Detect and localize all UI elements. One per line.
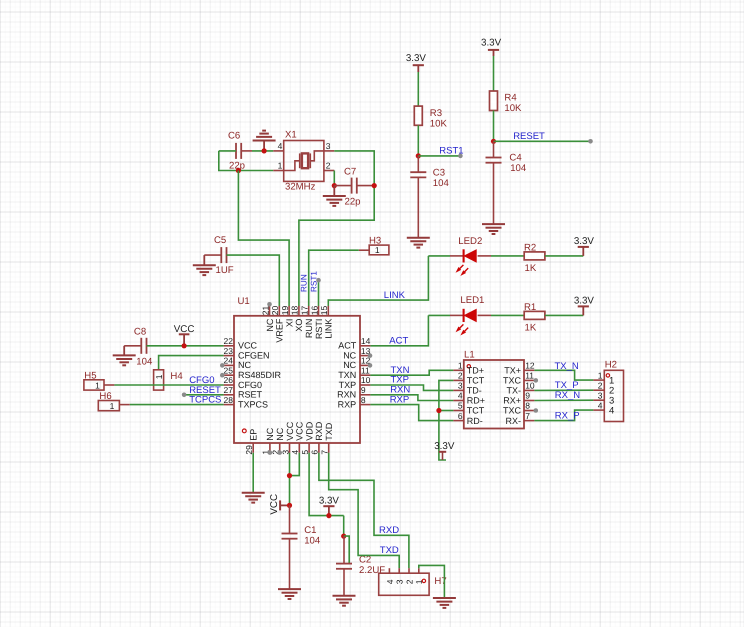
U1 pin 4 VCC (bottom)	[298, 443, 300, 453]
svg-text:C3: C3	[433, 167, 445, 178]
svg-text:TX-: TX-	[507, 386, 522, 396]
U1 pin 9 RXN (right)	[360, 394, 370, 396]
wire LINK to LED2 cathode	[428, 255, 450, 257]
H2 pin1 indicator circle	[606, 374, 609, 377]
svg-text:8: 8	[525, 401, 530, 411]
svg-text:RST1: RST1	[439, 145, 463, 156]
svg-text:9: 9	[525, 391, 530, 401]
svg-text:NC: NC	[265, 318, 275, 331]
X1 pin 2 lead	[324, 170, 334, 172]
U1 pin 14 ACT (right)	[360, 345, 370, 347]
wire RSTI stub	[318, 280, 320, 306]
svg-text:TXPCS: TXPCS	[238, 399, 268, 409]
svg-text:CFG0: CFG0	[238, 380, 262, 390]
wire 3.3V to R3	[417, 72, 419, 106]
svg-text:28: 28	[224, 395, 234, 405]
svg-text:3: 3	[598, 391, 603, 401]
wire C8 to U1 VCC pin 22	[147, 345, 224, 347]
wire jog to C2 plate	[344, 536, 350, 564]
svg-text:TD+: TD+	[467, 366, 484, 376]
svg-text:C4: C4	[509, 152, 522, 163]
junction C6 leg / crystal pin1 / XI net	[236, 168, 241, 173]
wire R4 to RESET node	[493, 111, 495, 142]
wire H5 to U1 CFG0 pin 26	[114, 384, 223, 386]
H2 pin 3	[593, 399, 604, 401]
wire U1 TXP pin10 to L1 pin3	[370, 385, 453, 390]
svg-text:VCC: VCC	[295, 421, 305, 441]
U1 pin 1 NC (bottom)	[269, 443, 271, 453]
svg-text:VDD: VDD	[304, 421, 314, 441]
svg-text:12: 12	[525, 361, 535, 371]
svg-text:104: 104	[510, 163, 527, 174]
ground left of C8	[123, 346, 125, 356]
svg-text:24: 24	[224, 356, 234, 366]
ground below crystal pin2	[333, 186, 335, 196]
wire RST stub right	[418, 155, 460, 157]
U1 pin 23 CFGEN (left)	[224, 355, 234, 357]
H2 pin 4	[593, 409, 604, 411]
no-connect dot pin 21	[267, 302, 272, 307]
svg-text:2: 2	[404, 579, 414, 584]
svg-text:C1: C1	[304, 525, 316, 536]
svg-text:20: 20	[270, 305, 280, 315]
H7 pin 4 lead	[388, 568, 390, 573]
svg-text:2: 2	[458, 371, 463, 381]
svg-text:3.3V: 3.3V	[434, 441, 455, 452]
svg-text:3.3V: 3.3V	[319, 495, 340, 506]
power 3.3V at R1	[582, 306, 584, 315]
svg-text:2.2UF: 2.2UF	[359, 565, 385, 576]
U1 pin 16 RSTI (top)	[318, 306, 320, 316]
wire C6 right to crystal pin4	[252, 150, 273, 152]
svg-text:4: 4	[458, 391, 463, 401]
svg-text:RX-: RX-	[506, 416, 522, 426]
U1 pin 29 EP (bottom)	[252, 443, 254, 453]
ground left of C5	[203, 255, 205, 265]
U1 pin 12 NC (right)	[360, 364, 370, 366]
U1 pin 19 XI (top)	[288, 306, 290, 316]
svg-text:RXP: RXP	[338, 399, 357, 409]
wire X1 pin2 down to C7	[333, 171, 335, 186]
H2 pin 2	[593, 389, 604, 391]
power 3.3V at L1 center taps	[439, 451, 446, 453]
svg-text:TCT: TCT	[467, 406, 485, 416]
svg-text:NC: NC	[343, 350, 356, 360]
svg-text:RESET: RESET	[513, 131, 545, 142]
svg-text:TCT: TCT	[467, 376, 485, 386]
wire RESET stub to U1 RSET pin 27	[184, 394, 224, 396]
ground below C1	[278, 589, 301, 599]
svg-text:VCC: VCC	[238, 341, 258, 351]
svg-text:5: 5	[458, 401, 463, 411]
svg-text:TX+: TX+	[504, 366, 521, 376]
svg-text:TXC: TXC	[503, 376, 522, 386]
svg-text:RD+: RD+	[467, 396, 485, 406]
svg-text:TXN: TXN	[338, 370, 356, 380]
svg-text:18: 18	[290, 305, 300, 315]
svg-text:1: 1	[458, 361, 463, 371]
wire U1 pin6 RXD to H7 pin2	[319, 453, 409, 568]
U1 pin 28 TXPCS (left)	[224, 404, 234, 406]
svg-text:VCC: VCC	[269, 494, 280, 515]
EP pad indicator circle	[242, 429, 246, 433]
svg-text:104: 104	[433, 178, 450, 189]
wire H7 pin1 to ground	[419, 565, 445, 598]
capacitor C1	[289, 505, 291, 533]
svg-text:RXP: RXP	[390, 394, 410, 405]
svg-text:7: 7	[525, 411, 530, 421]
L1 pin 4 RD+ (left)	[453, 400, 463, 402]
svg-text:3: 3	[326, 141, 331, 151]
svg-text:TXC: TXC	[503, 406, 522, 416]
svg-text:RX_P: RX_P	[555, 410, 580, 421]
U1 pin 10 TXP (right)	[360, 384, 370, 386]
svg-text:3: 3	[395, 579, 405, 584]
X1 pin 4 lead	[273, 150, 283, 152]
svg-text:TD-: TD-	[467, 386, 482, 396]
power 3.3V at R2	[582, 247, 584, 256]
power VCC flag rotated	[279, 500, 281, 510]
U1 pin 5 VDD (bottom)	[308, 443, 310, 453]
H7 pin1 indicator circle	[422, 579, 425, 582]
svg-text:2: 2	[326, 160, 331, 170]
svg-text:RUN: RUN	[300, 274, 309, 292]
wire U1 pin7 TXD to H7 pin3	[329, 453, 400, 568]
no-connect dot pin 25	[220, 373, 225, 378]
power VCC flag	[179, 333, 190, 335]
svg-text:104: 104	[304, 536, 321, 547]
svg-text:X1: X1	[285, 130, 297, 141]
svg-text:3.3V: 3.3V	[406, 53, 427, 64]
svg-text:RXD: RXD	[379, 525, 399, 536]
svg-text:11: 11	[525, 371, 534, 381]
wire L1 TX+ pin12 to H2 pin1	[534, 370, 593, 380]
U1 pin 18 XO (top)	[298, 306, 300, 316]
svg-text:TXD: TXD	[324, 422, 334, 441]
svg-text:ACT: ACT	[338, 341, 357, 351]
svg-text:1: 1	[598, 371, 603, 381]
U1 pin 11 TXN (right)	[360, 374, 370, 376]
wire 3.3V to R4	[493, 56, 495, 91]
wire C5 to U1 VREF pin 20	[227, 255, 280, 306]
H7 pin 2 lead	[408, 568, 410, 573]
svg-text:3.3V: 3.3V	[574, 236, 595, 247]
L1 pin 12 TX+ (right)	[524, 369, 534, 371]
svg-text:TX_N: TX_N	[555, 361, 579, 372]
svg-text:C5: C5	[214, 235, 226, 246]
svg-text:15: 15	[319, 305, 329, 315]
wire L1 TX- pin10 to H2 pin2	[534, 389, 593, 391]
svg-text:LINK: LINK	[384, 290, 406, 301]
L1 pin 3 TD- (left)	[453, 389, 463, 391]
svg-text:NC: NC	[275, 427, 285, 440]
U1 pin 6 RXD (bottom)	[318, 443, 320, 453]
no-connect dot pin 1	[268, 450, 273, 455]
ground below C2	[333, 596, 356, 606]
wire U1 RXP pin8 to L1 pin6	[370, 405, 453, 421]
wire ACT to LED1 cathode	[428, 314, 450, 316]
LED2 anode lead to R2	[478, 255, 491, 257]
svg-text:TXD: TXD	[380, 545, 399, 556]
U1 pin 24 NC (left)	[224, 364, 234, 366]
svg-text:1K: 1K	[525, 322, 537, 333]
svg-text:1: 1	[375, 245, 380, 255]
svg-text:4: 4	[598, 401, 603, 411]
svg-text:16: 16	[309, 305, 319, 315]
U1 pin 7 TXD (bottom)	[328, 443, 330, 453]
L1 pin1 indicator circle	[467, 365, 470, 368]
ground below C4	[482, 224, 505, 234]
U1 pin 25 RS485DIR (left)	[224, 374, 234, 376]
svg-text:RXD: RXD	[314, 421, 324, 441]
U1 pin 13 NC (right)	[360, 355, 370, 357]
svg-text:22: 22	[224, 336, 234, 346]
junction at C6/X1 pin4/ground	[262, 148, 267, 153]
wire U1 CFGEN pin23 to H4	[159, 356, 224, 370]
no-connect dot pin 12	[368, 363, 373, 368]
junction VCC / pin22 wire	[182, 343, 187, 348]
svg-text:19: 19	[280, 305, 290, 315]
svg-text:H4: H4	[170, 371, 183, 382]
wire VDD rail down to C2	[343, 516, 345, 537]
svg-text:14: 14	[361, 336, 371, 346]
U1 pin 15 LINK (top)	[327, 306, 329, 316]
svg-text:XI: XI	[284, 319, 294, 328]
wire U1 pin5 VDD to 3.3V rail	[309, 453, 344, 516]
LED1 anode lead to R1	[478, 314, 491, 316]
resistor R4	[490, 91, 498, 111]
svg-text:23: 23	[224, 346, 234, 356]
svg-text:1UF: 1UF	[216, 265, 234, 276]
capacitor C2	[343, 536, 345, 564]
U1 pin 26 CFG0 (left)	[224, 384, 234, 386]
junction TCT rail	[436, 408, 441, 413]
wire junction to U1 XI pin 19	[238, 171, 289, 307]
svg-text:3: 3	[458, 381, 463, 391]
svg-text:RS485DIR: RS485DIR	[238, 370, 282, 380]
U1 pin 22 VCC (left)	[224, 345, 234, 347]
no-connect dot pin 24	[220, 363, 225, 368]
X1 pin 1 lead	[273, 170, 283, 172]
power 3.3V above R3	[413, 64, 424, 66]
no-connect dot L1 pin 8	[534, 408, 539, 413]
junction VCC / C1	[287, 503, 292, 508]
svg-text:LED2: LED2	[458, 236, 482, 247]
svg-text:R3: R3	[430, 108, 442, 119]
U1 pin 8 RXP (right)	[360, 404, 370, 406]
wire R2 to 3.3V	[545, 255, 583, 257]
L1 pin 5 TCT (left)	[453, 410, 463, 412]
wire L1 RX- pin7 to H2 pin4	[534, 410, 593, 421]
svg-text:L1: L1	[464, 349, 475, 360]
capacitor C4	[493, 141, 495, 157]
wire H6 to U1 TXPCS pin 28	[130, 404, 224, 406]
svg-text:1: 1	[95, 380, 100, 390]
svg-text:10: 10	[525, 381, 535, 391]
svg-text:8: 8	[361, 395, 366, 405]
svg-text:LED1: LED1	[460, 295, 484, 306]
svg-text:21: 21	[260, 305, 270, 315]
svg-text:RSET: RSET	[238, 390, 263, 400]
svg-text:4: 4	[609, 406, 614, 417]
wire X1 pin3 to XO net loop	[299, 151, 374, 306]
svg-text:1: 1	[278, 160, 283, 170]
svg-text:RUN: RUN	[304, 319, 314, 339]
U1 pin 20 VREF (top)	[278, 306, 280, 316]
wire U1 ACT pin14 to LED1	[370, 315, 428, 345]
svg-text:RD-: RD-	[467, 416, 483, 426]
power 3.3V at VDD	[323, 505, 334, 507]
no-connect dot L1 pin 11	[534, 378, 539, 383]
U1 pin 3 VCC (bottom)	[289, 443, 291, 453]
svg-text:C7: C7	[344, 166, 356, 177]
svg-text:U1: U1	[238, 296, 250, 307]
wire L1 TCT pin2 to 3.3V rail	[439, 380, 454, 460]
svg-text:4: 4	[278, 141, 283, 151]
svg-text:TCPCS: TCPCS	[189, 395, 221, 406]
svg-text:6: 6	[458, 411, 463, 421]
X1 pin 3 lead	[324, 150, 334, 152]
svg-text:RX+: RX+	[503, 396, 521, 406]
L1 pin 9 RX+ (right)	[524, 400, 534, 402]
wire U1 TXN pin11 to L1 pin1	[370, 370, 453, 375]
svg-text:17: 17	[300, 305, 310, 315]
L1 pin 10 TX- (right)	[524, 389, 534, 391]
U1 pin 17 RUN (top)	[308, 306, 310, 316]
L1 pin 8 TXC (right)	[524, 410, 534, 412]
svg-text:RXN: RXN	[337, 390, 356, 400]
svg-text:VCC: VCC	[285, 421, 295, 441]
no-connect dot pin 13	[368, 353, 373, 358]
junction RESET node	[491, 139, 496, 144]
U1 pin 21 NC (top)	[269, 306, 271, 316]
svg-text:LINK: LINK	[324, 319, 334, 339]
ground right of H7	[433, 598, 456, 608]
svg-text:1: 1	[154, 374, 164, 379]
svg-text:RSTI: RSTI	[314, 319, 324, 340]
svg-text:ACT: ACT	[389, 335, 408, 346]
svg-text:H2: H2	[605, 359, 617, 370]
svg-text:1K: 1K	[525, 263, 537, 274]
wire R3 to RST node	[417, 125, 419, 156]
no-connect dot pin 2	[277, 450, 282, 455]
H7 pin 3 lead	[398, 568, 400, 573]
L1 pin 6 RD- (left)	[453, 420, 463, 422]
wire C6 left leg down to XI net	[219, 151, 273, 171]
svg-text:104: 104	[136, 356, 153, 367]
svg-text:VREF: VREF	[275, 318, 285, 343]
junction C2 tap	[341, 534, 346, 539]
svg-text:R4: R4	[504, 93, 517, 104]
svg-text:XO: XO	[294, 319, 304, 332]
L1 pin 7 RX- (right)	[524, 420, 534, 422]
H7 pin 1 lead	[418, 568, 420, 573]
svg-text:1: 1	[110, 401, 115, 411]
svg-text:3.3V: 3.3V	[481, 37, 502, 48]
wire L1 RX+ pin9 to H2 pin3	[534, 399, 593, 401]
capacitor C3	[417, 156, 419, 172]
svg-text:25: 25	[224, 365, 234, 375]
wire RESET stub right	[494, 140, 591, 142]
wire L1 TCT pin5 tap	[439, 410, 454, 412]
junction 3.3V / VDD wire	[326, 513, 331, 518]
wire U1 LINK pin15 to LED2	[328, 256, 428, 306]
wire U1 pin3 VCC down	[289, 453, 291, 506]
svg-text:VCC: VCC	[174, 324, 195, 335]
U1 pin 27 RSET (left)	[224, 394, 234, 396]
svg-text:TXP: TXP	[339, 380, 357, 390]
svg-text:CFGEN: CFGEN	[238, 350, 270, 360]
svg-text:9: 9	[361, 385, 366, 395]
wire U1 RXN pin9 to L1 pin4	[370, 395, 453, 401]
svg-text:EP: EP	[249, 429, 259, 441]
svg-text:32MHz: 32MHz	[285, 181, 316, 192]
junction X1 pin2 / C7 / ground	[332, 183, 337, 188]
svg-text:26: 26	[224, 375, 234, 385]
svg-text:2: 2	[598, 381, 603, 391]
svg-text:10: 10	[361, 375, 371, 385]
ground below pin 29	[242, 493, 265, 503]
H2 pin 1	[593, 379, 604, 381]
svg-text:C6: C6	[228, 131, 240, 142]
svg-text:4: 4	[385, 579, 395, 584]
svg-text:NC: NC	[238, 360, 251, 370]
svg-text:C8: C8	[134, 326, 146, 337]
svg-text:NC: NC	[265, 427, 275, 440]
svg-text:NC: NC	[343, 360, 356, 370]
L1 pin 2 TCT (left)	[453, 379, 463, 381]
junction RST node	[416, 153, 421, 158]
svg-text:RX_N: RX_N	[555, 390, 580, 401]
wire R1 to 3.3V	[545, 314, 583, 316]
wire U1 pin4 VCC join	[290, 453, 300, 476]
ground above crystal pin4 wire	[263, 141, 265, 151]
resistor R3	[414, 106, 422, 125]
svg-text:3.3V: 3.3V	[574, 296, 595, 307]
L1 pin 1 TD+ (left)	[453, 369, 463, 371]
svg-text:22p: 22p	[345, 196, 361, 207]
svg-text:10K: 10K	[504, 103, 522, 114]
U1 pin 2 NC (bottom)	[279, 443, 281, 453]
wire H3 to U1 RUN pin 17	[309, 250, 359, 306]
svg-text:10K: 10K	[430, 118, 448, 129]
junction C7 right / XO loop	[372, 183, 377, 188]
L1 pin 11 TXC (right)	[524, 379, 534, 381]
wire U1 EP pin29 to ground	[252, 453, 254, 493]
ground below C3	[407, 238, 430, 248]
junction pins 3/4	[287, 473, 292, 478]
power 3.3V above R4	[488, 49, 499, 51]
svg-text:27: 27	[224, 385, 234, 395]
